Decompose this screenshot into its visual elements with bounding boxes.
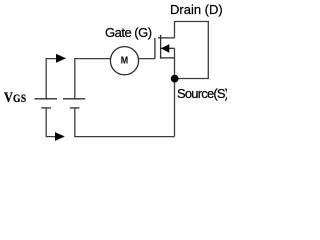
wire: meter to gate	[139, 58, 155, 60]
transistor Q1 body stub	[161, 47, 175, 49]
transistor Q1 channel line	[160, 35, 162, 59]
arrow: bottom probe arrowhead	[55, 132, 65, 141]
label: Source(S)	[177, 86, 228, 101]
label: Gate (G)	[105, 25, 152, 40]
wire: top wire from battery branch to meter	[75, 59, 111, 99]
wire: battery branch to bottom wire, bottom wire to source lead	[75, 108, 175, 137]
meter M1 circle	[110, 47, 138, 75]
wire: VGS branch bottom lead with corner	[46, 108, 55, 137]
battery B2 short plate	[70, 107, 80, 109]
transistor Q1 source stub	[161, 57, 175, 59]
wire: VGS branch top lead with corner	[46, 59, 56, 99]
transistor Q1 gate line	[154, 38, 156, 59]
wire: source lead down to bottom wire	[174, 48, 176, 136]
battery B1 long plate	[35, 98, 58, 100]
wire: drain lead and drain loop	[175, 22, 209, 79]
label: Drain (D)	[170, 2, 223, 17]
label: V GS	[4, 90, 27, 107]
battery B1 short plate	[41, 107, 51, 109]
arrow: top probe arrowhead	[56, 54, 66, 63]
battery B2 long plate	[63, 98, 85, 100]
transistor Q1 drain stub	[158, 37, 175, 39]
node: source junction dot	[171, 75, 179, 83]
transistor Q1 body arrow	[161, 44, 169, 53]
svg-text:M: M	[121, 56, 128, 67]
